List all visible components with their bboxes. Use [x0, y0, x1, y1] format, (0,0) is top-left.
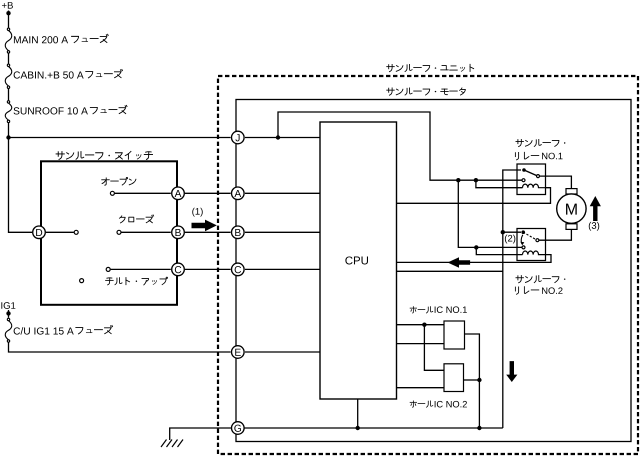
connector G [232, 422, 245, 435]
arrow down near halls [506, 361, 517, 382]
wire CPU to relay1 coil return [397, 188, 551, 204]
connector switch A [172, 187, 185, 200]
relay NO.2 label [516, 276, 566, 283]
junction +B dot [6, 11, 10, 15]
wire hall branch down to hall2 [424, 325, 444, 371]
connector B [232, 226, 245, 239]
wire switch A to unit A [185, 192, 231, 194]
contact tilt spare [80, 279, 84, 283]
wire G to chassis ground [170, 428, 231, 440]
wire CPU ground to vertical [397, 270, 503, 272]
relay NO.2 armature dashed [523, 232, 536, 239]
wire switch C to unit C [185, 268, 231, 270]
label tilt-up [106, 277, 168, 285]
wire J feed [9, 137, 231, 139]
wire hall2 output [464, 379, 480, 381]
label CABIN fuse [14, 71, 84, 78]
wire ground vertical to relays [503, 170, 521, 428]
junction dot hall gnd [477, 426, 481, 430]
arrow (3) up [590, 196, 601, 221]
wire coil2 feed [476, 247, 522, 254]
relay NO.1 contact to motor [537, 175, 540, 178]
relay NO.2 common pivot [521, 230, 525, 234]
wire C to CPU [245, 268, 320, 270]
relay NO.1 box [517, 164, 546, 195]
junction dot 476 low [474, 245, 478, 249]
connector A [232, 187, 245, 200]
junction dot hall outputs [477, 378, 481, 382]
label MAIN 200 A fuse [14, 36, 68, 43]
fuse MAIN 200A [7, 28, 9, 30]
wire +B branch over CPU to relays [278, 112, 522, 180]
wire A to CPU [245, 192, 320, 194]
connector C [232, 263, 245, 276]
junction dot J branch [276, 135, 280, 139]
wire coil1 feed [476, 180, 523, 188]
label SUNROOF fuse [14, 107, 88, 114]
wire +B rail down to D row [9, 123, 33, 232]
wire B to CPU [245, 231, 320, 233]
unit dashed box sunroof unit [218, 76, 638, 454]
wire hall1 output [465, 334, 480, 428]
relay NO.1 armature [524, 170, 537, 176]
junction dot 476 [474, 178, 478, 182]
wire J to CPU [245, 137, 320, 139]
label (2) [505, 235, 515, 244]
CPU box U1 [320, 122, 397, 399]
contact tilt C [111, 268, 171, 270]
junction dot at J branch [6, 135, 10, 139]
relay NO.1 common pivot [522, 168, 526, 172]
junction dot CPU gnd [356, 426, 360, 430]
connector switch B [172, 226, 185, 239]
wire to relay2 contact [458, 180, 521, 247]
label sunroof motor [387, 88, 466, 95]
wire CPU ground stub [357, 399, 359, 428]
relay NO.1 label [516, 139, 566, 146]
relay NO.2 contact to motor [536, 239, 539, 242]
wire IG1 stub [8, 310, 10, 318]
junction IG1 dot [6, 311, 10, 315]
relay NO.1 coil L1 [523, 184, 546, 188]
node IG1 label [1, 302, 15, 309]
label (1) [192, 208, 202, 217]
connector switch C [172, 263, 185, 276]
switch box sunroof switch [41, 161, 177, 304]
wire relay2 common [503, 231, 521, 233]
relay NO.2 NC contact [522, 246, 525, 249]
wire D common row [46, 231, 74, 233]
connector D [33, 226, 46, 239]
relay NO.2 armature motion arrow (2) [521, 235, 523, 244]
fuse CABIN.+B 50A [7, 64, 9, 66]
contact close right [117, 230, 121, 234]
wire switch B to unit B [185, 231, 231, 233]
label C/U IG1 fuse [14, 327, 74, 334]
connector E [232, 346, 245, 359]
wire +B rail top [8, 11, 10, 28]
hall IC NO.2 box [444, 364, 464, 392]
label sunroof unit [387, 64, 474, 71]
fuse SUNROOF 10A [7, 101, 9, 103]
wire CPU hall1 upper [397, 324, 445, 326]
label close [119, 215, 153, 223]
hall IC NO.1 box [444, 321, 465, 349]
label hall IC NO.1 [410, 307, 433, 313]
wire between fuse2 fuse3 [8, 89, 10, 101]
wire CPU to relay2 coil return [397, 255, 552, 263]
label open [102, 177, 136, 185]
wire E feed from IG1 fuse [9, 343, 231, 353]
wire CPU hall2 lower [397, 387, 445, 389]
connector J [232, 131, 245, 144]
label sunroof switch [56, 151, 152, 159]
wire CPU hall1 lower [397, 343, 445, 345]
contact close left [74, 230, 78, 234]
junction dot hall branch [422, 323, 426, 327]
junction dot relay2 common [501, 230, 505, 234]
relay NO.2 coil L2 [523, 251, 546, 255]
node +B label [2, 2, 13, 9]
relay NO.1 NC contact [522, 179, 525, 182]
fuse C/U IG1 15A [7, 318, 9, 320]
contact open A [115, 192, 171, 194]
ground symbol [161, 440, 183, 448]
arrow left on coil2 return [448, 257, 471, 267]
junction dot 458 [456, 178, 460, 182]
wire E to CPU [245, 351, 320, 353]
wire between fuse1 fuse2 [8, 53, 10, 63]
arrow (1) right [192, 220, 217, 232]
label hall IC NO.2 [410, 401, 433, 407]
wire ground bus G [231, 427, 503, 429]
relay NO.2 box [517, 229, 546, 261]
wire to B [121, 231, 171, 233]
motor box sunroof motor [236, 100, 631, 442]
motor M [566, 189, 577, 194]
